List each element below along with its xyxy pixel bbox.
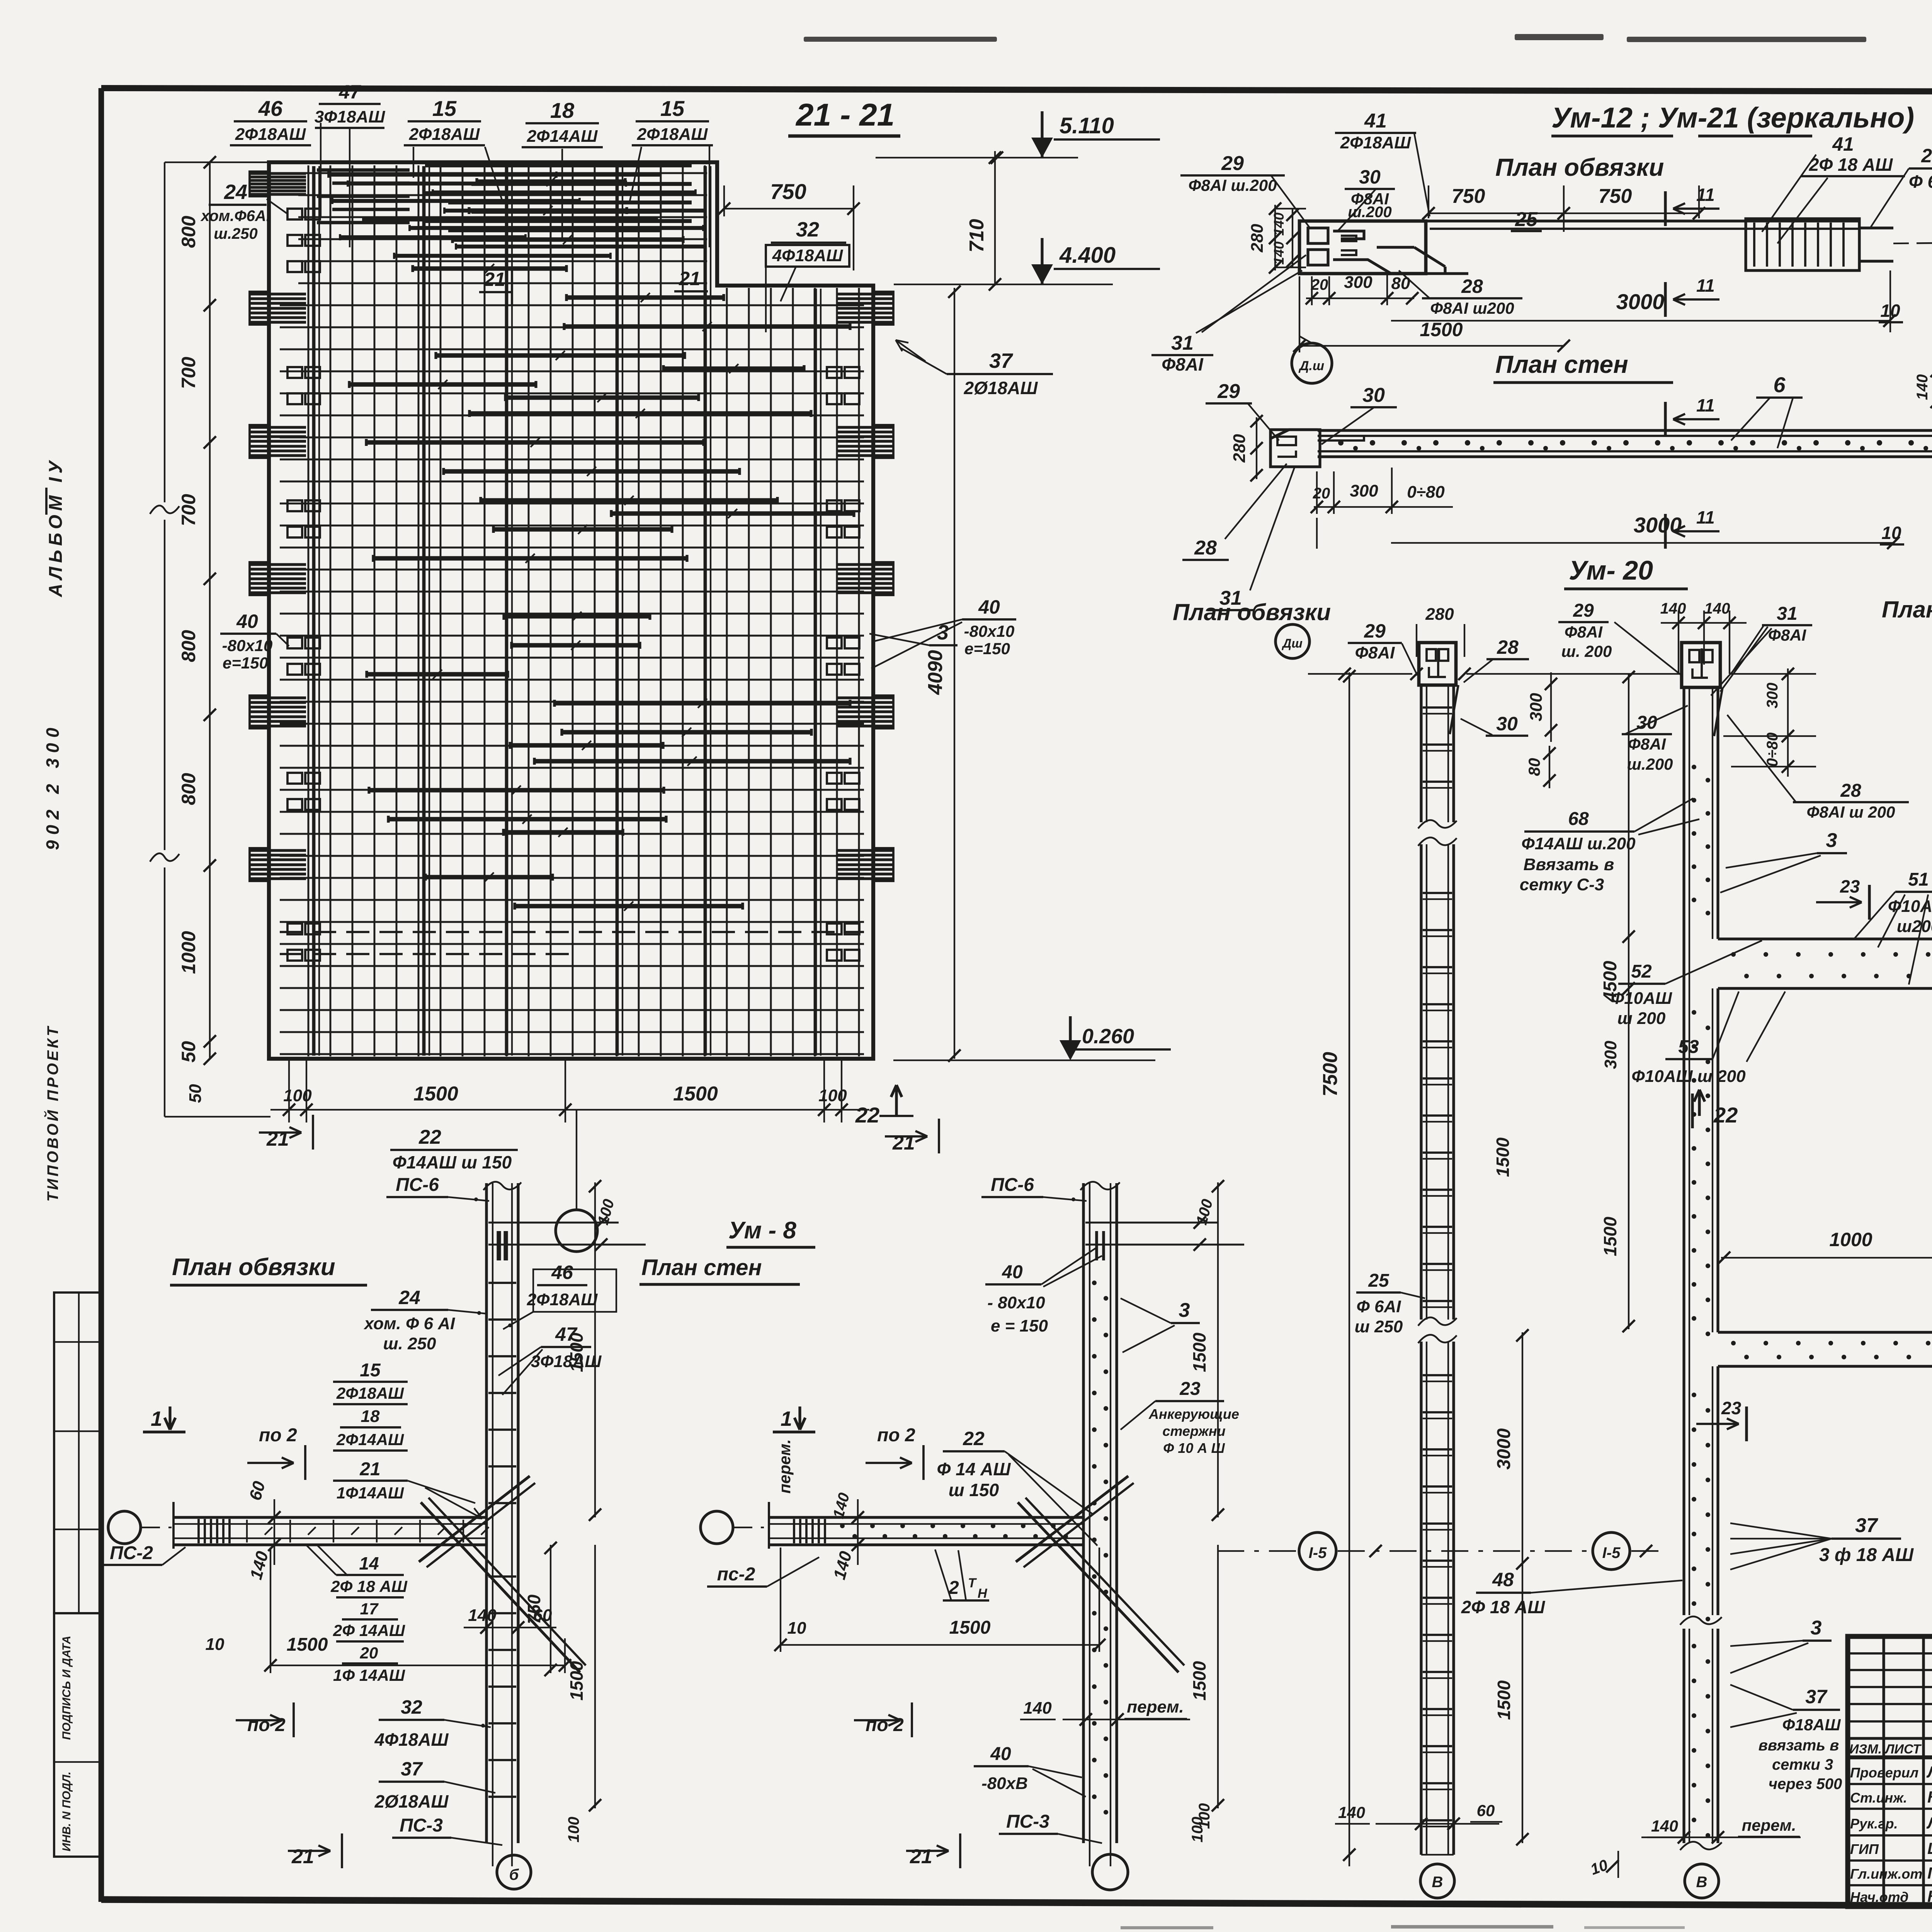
circle b bottom T1 xyxy=(497,1855,531,1889)
svg-text:700: 700 xyxy=(178,357,199,389)
level 4.400 xyxy=(894,284,1113,285)
svg-text:29: 29 xyxy=(1217,380,1240,403)
dashed construction line lower mesh xyxy=(280,931,864,933)
svg-text:25: 25 xyxy=(1921,145,1932,167)
svg-text:2Ф18АШ: 2Ф18АШ xyxy=(336,1384,404,1402)
svg-text:140: 140 xyxy=(1271,241,1287,265)
svg-text:Т: Т xyxy=(968,1576,977,1590)
heavy rebar segments with hooks xyxy=(477,179,625,184)
svg-text:Красавин: Красавин xyxy=(1927,1887,1932,1905)
svg-text:Ст.инж.: Ст.инж. xyxy=(1850,1790,1907,1806)
svg-text:18: 18 xyxy=(361,1407,380,1426)
svg-text:План стен: План стен xyxy=(1495,350,1628,378)
circle bottom T2 xyxy=(1092,1854,1128,1890)
rebar mesh horizontal bars xyxy=(280,173,864,1054)
T-section 1 (plan obvyazki) PS-6/PS-2/PS-3 xyxy=(485,1183,488,1843)
vertical dims T2 right xyxy=(1217,1182,1219,1517)
svg-text:14: 14 xyxy=(359,1553,379,1573)
left margin table lower xyxy=(54,1613,102,1857)
svg-text:ПС-6: ПС-6 xyxy=(991,1175,1034,1195)
svg-text:11: 11 xyxy=(1696,276,1715,296)
svg-text:2Ф18АШ: 2Ф18АШ xyxy=(637,125,708,144)
svg-text:50: 50 xyxy=(178,1041,199,1063)
svg-text:3000: 3000 xyxy=(1494,1428,1514,1469)
svg-text:2Ф14АШ: 2Ф14АШ xyxy=(336,1430,404,1449)
svg-text:Ф 14 АШ: Ф 14 АШ xyxy=(937,1459,1011,1479)
node circle Dsh sten xyxy=(1276,624,1310,658)
svg-text:ТИПОВОЙ ПРОЕКТ: ТИПОВОЙ ПРОЕКТ xyxy=(43,1024,61,1202)
svg-text:23: 23 xyxy=(1179,1379,1201,1399)
section mark 11 sten bottom xyxy=(1664,514,1667,549)
svg-text:300: 300 xyxy=(1527,693,1546,721)
svg-text:28: 28 xyxy=(1194,537,1217,559)
svg-text:Ф8АI: Ф8АI xyxy=(1565,623,1603,641)
svg-text:28: 28 xyxy=(1461,276,1483,297)
dense top bars cluster extra xyxy=(328,173,556,177)
svg-text:6: 6 xyxy=(1773,372,1786,397)
svg-text:е=150: е=150 xyxy=(223,654,268,672)
svg-text:32: 32 xyxy=(401,1696,422,1718)
section mark 23 upper xyxy=(1868,885,1871,920)
svg-text:2Ф 14АШ: 2Ф 14АШ xyxy=(333,1621,405,1639)
svg-text:План обвязки: План обвязки xyxy=(172,1254,335,1281)
svg-text:21: 21 xyxy=(483,269,505,290)
svg-text:Ум - 8: Ум - 8 xyxy=(728,1217,796,1244)
svg-text:ш 150: ш 150 xyxy=(949,1480,999,1500)
svg-text:1000: 1000 xyxy=(1829,1229,1872,1250)
svg-text:280: 280 xyxy=(1425,605,1454,624)
svg-text:Пронин: Пронин xyxy=(1927,1864,1932,1882)
svg-text:ш 250: ш 250 xyxy=(1355,1317,1403,1336)
svg-text:ИНВ. N ПОДЛ.: ИНВ. N ПОДЛ. xyxy=(60,1772,73,1852)
section mark 11 top xyxy=(1664,191,1667,226)
svg-text:18: 18 xyxy=(550,98,575,122)
grid plan outline xyxy=(269,162,873,1059)
node circle Dsh xyxy=(1292,343,1332,383)
svg-text:28: 28 xyxy=(1497,636,1519,658)
svg-text:100: 100 xyxy=(565,1817,582,1843)
svg-text:2Ф18АШ: 2Ф18АШ xyxy=(527,1290,598,1309)
svg-text:План стен: План стен xyxy=(1882,597,1932,622)
svg-text:1500: 1500 xyxy=(1189,1332,1209,1372)
svg-text:22: 22 xyxy=(418,1126,441,1148)
svg-text:Нач.отд: Нач.отд xyxy=(1850,1889,1908,1905)
svg-text:28: 28 xyxy=(1840,781,1861,801)
svg-text:20: 20 xyxy=(1311,276,1328,293)
svg-text:11: 11 xyxy=(1696,185,1715,205)
svg-text:Проверил: Проверил xyxy=(1850,1765,1918,1781)
svg-text:3: 3 xyxy=(1811,1617,1822,1639)
svg-text:40: 40 xyxy=(236,611,258,632)
svg-text:Рук.гр.: Рук.гр. xyxy=(1850,1816,1898,1832)
svg-text:I-5: I-5 xyxy=(1309,1544,1327,1561)
svg-text:План стен: План стен xyxy=(641,1255,762,1280)
svg-text:68: 68 xyxy=(1568,809,1589,829)
svg-text:25: 25 xyxy=(1368,1270,1389,1291)
dense top bars cluster xyxy=(425,163,692,167)
svg-text:2Ф18АШ: 2Ф18АШ xyxy=(409,125,480,144)
svg-text:800: 800 xyxy=(178,630,199,662)
svg-text:Ф8АI ш 200: Ф8АI ш 200 xyxy=(1807,803,1895,821)
svg-text:29: 29 xyxy=(1364,620,1386,642)
svg-text:Ф14АШ ш 150: Ф14АШ ш 150 xyxy=(393,1152,512,1172)
svg-text:План обвязки: План обвязки xyxy=(1495,153,1664,181)
svg-text:750: 750 xyxy=(1452,185,1485,207)
svg-text:В: В xyxy=(1696,1874,1708,1891)
svg-text:Ф8АI: Ф8АI xyxy=(1768,626,1806,644)
svg-text:е=150: е=150 xyxy=(964,639,1010,658)
svg-text:750: 750 xyxy=(770,179,806,204)
vertical dim 710 xyxy=(994,151,996,286)
svg-text:51: 51 xyxy=(1908,869,1929,890)
svg-text:10: 10 xyxy=(206,1635,224,1654)
svg-text:40: 40 xyxy=(978,596,1000,618)
svg-text:41: 41 xyxy=(1364,110,1387,132)
dim 750 top right xyxy=(724,208,854,209)
left vertical dimension chains xyxy=(209,162,211,1059)
svg-text:4500: 4500 xyxy=(1600,961,1621,1002)
svg-text:21 - 21: 21 - 21 xyxy=(795,97,895,133)
svg-text:800: 800 xyxy=(178,773,199,805)
slab 2 of right strip xyxy=(1718,1331,1932,1333)
svg-text:280: 280 xyxy=(1230,434,1249,463)
svg-text:80: 80 xyxy=(1525,758,1543,776)
svg-text:ш. 200: ш. 200 xyxy=(1561,642,1612,660)
svg-text:перем.: перем. xyxy=(1127,1697,1184,1716)
svg-text:300: 300 xyxy=(1344,273,1372,292)
svg-text:перем.: перем. xyxy=(776,1439,794,1494)
svg-text:1500: 1500 xyxy=(949,1617,991,1638)
svg-text:10: 10 xyxy=(1881,523,1901,543)
level 5.110 xyxy=(876,157,1078,158)
vertical dim 4090 right of plan xyxy=(954,288,955,1059)
svg-text:Ф8АI ш200: Ф8АI ш200 xyxy=(1430,299,1514,317)
svg-text:710: 710 xyxy=(966,219,988,253)
bottom dimension chain xyxy=(288,1061,290,1122)
svg-text:Ф8АI ш.200: Ф8АI ш.200 xyxy=(1189,176,1277,194)
svg-text:ЛИСТ: ЛИСТ xyxy=(1884,1742,1922,1757)
svg-text:10: 10 xyxy=(787,1619,806,1638)
svg-text:Курганова: Курганова xyxy=(1927,1788,1932,1806)
svg-text:21: 21 xyxy=(291,1845,314,1868)
svg-text:1500: 1500 xyxy=(1189,1661,1209,1701)
svg-text:по 2: по 2 xyxy=(877,1425,915,1446)
svg-text:3: 3 xyxy=(1179,1299,1190,1321)
svg-text:22: 22 xyxy=(1713,1103,1738,1127)
circle node bottom of plan xyxy=(556,1210,597,1252)
svg-text:по 2: по 2 xyxy=(247,1715,286,1735)
svg-text:ш. 250: ш. 250 xyxy=(383,1334,437,1353)
svg-text:пс-2: пс-2 xyxy=(717,1564,755,1585)
svg-text:-80хВ: -80хВ xyxy=(981,1774,1028,1793)
svg-text:Дш: Дш xyxy=(1281,636,1303,650)
svg-text:Лоуцкер: Лоуцкер xyxy=(1926,1763,1932,1781)
svg-text:е = 150: е = 150 xyxy=(991,1316,1048,1335)
svg-text:46: 46 xyxy=(258,96,283,121)
svg-text:АЛЬБОМ IУ: АЛЬБОМ IУ xyxy=(46,457,66,597)
svg-text:хом.Ф6АI: хом.Ф6АI xyxy=(200,207,271,224)
svg-text:2Ф 18 АШ: 2Ф 18 АШ xyxy=(1809,155,1893,175)
svg-text:1500: 1500 xyxy=(1600,1216,1620,1256)
svg-text:300: 300 xyxy=(1601,1041,1620,1069)
svg-text:1: 1 xyxy=(151,1407,162,1430)
svg-text:280: 280 xyxy=(1248,224,1267,253)
svg-text:4Ф18АШ: 4Ф18АШ xyxy=(772,246,844,265)
svg-text:140: 140 xyxy=(1023,1699,1052,1718)
svg-text:1500: 1500 xyxy=(287,1634,328,1655)
svg-text:ПОДПИСЬ И ДАТА: ПОДПИСЬ И ДАТА xyxy=(60,1636,73,1740)
svg-text:стержни: стержни xyxy=(1162,1423,1225,1439)
svg-text:5.110: 5.110 xyxy=(1060,113,1114,138)
svg-text:30: 30 xyxy=(1362,384,1385,406)
svg-text:46: 46 xyxy=(551,1262,573,1283)
svg-text:перем.: перем. xyxy=(1742,1816,1796,1834)
svg-text:47: 47 xyxy=(338,81,361,103)
svg-text:3000: 3000 xyxy=(1616,289,1665,314)
svg-text:4.400: 4.400 xyxy=(1059,243,1116,268)
svg-text:Ум- 20: Ум- 20 xyxy=(1569,555,1653,585)
svg-text:37: 37 xyxy=(401,1758,423,1780)
svg-text:ПС-3: ПС-3 xyxy=(400,1815,443,1836)
svg-text:100: 100 xyxy=(1189,1817,1206,1843)
svg-text:11: 11 xyxy=(1696,395,1715,415)
svg-text:Ф18АШ: Ф18АШ xyxy=(1782,1716,1841,1734)
svg-text:ш.250: ш.250 xyxy=(214,225,257,242)
svg-text:через 500: через 500 xyxy=(1769,1776,1842,1793)
svg-text:ИЗМ.: ИЗМ. xyxy=(1849,1742,1882,1757)
svg-text:21: 21 xyxy=(679,268,701,289)
svg-text:Ф8АI: Ф8АI xyxy=(1628,735,1666,753)
svg-text:Ф8АI: Ф8АI xyxy=(1162,354,1204,374)
svg-text:31: 31 xyxy=(1777,604,1797,624)
svg-text:750: 750 xyxy=(524,1594,544,1624)
svg-text:I-5: I-5 xyxy=(1602,1544,1621,1561)
svg-text:ГИП: ГИП xyxy=(1850,1841,1879,1857)
svg-text:1500: 1500 xyxy=(566,1661,587,1701)
level 0.260 right of plan xyxy=(893,1060,1155,1061)
dim 1500 under detail xyxy=(1299,345,1564,347)
svg-text:37: 37 xyxy=(1855,1514,1878,1537)
bar detail plan sten Um-12 xyxy=(1271,430,1318,438)
svg-text:50: 50 xyxy=(186,1084,205,1103)
svg-text:1Ф 14АШ: 1Ф 14АШ xyxy=(333,1666,405,1684)
svg-text:Ф10АШ ш 200: Ф10АШ ш 200 xyxy=(1631,1067,1746,1086)
svg-text:140: 140 xyxy=(1651,1817,1678,1835)
svg-text:21: 21 xyxy=(910,1845,932,1868)
svg-text:2Ф14АШ: 2Ф14АШ xyxy=(527,127,598,146)
svg-text:21: 21 xyxy=(359,1459,380,1480)
section mark 11 bottom xyxy=(1664,282,1667,317)
svg-text:- 80х10: - 80х10 xyxy=(987,1293,1045,1312)
dim 3000 xyxy=(1391,320,1889,321)
svg-text:29: 29 xyxy=(1573,600,1594,621)
clip symbols left column xyxy=(287,209,302,219)
rebar mesh vertical bars xyxy=(308,165,859,1056)
svg-text:0÷80: 0÷80 xyxy=(1764,733,1781,767)
svg-text:План обвязки: План обвязки xyxy=(1173,599,1331,625)
svg-text:32: 32 xyxy=(796,218,819,241)
svg-text:-80х10: -80х10 xyxy=(964,622,1015,640)
svg-text:1500: 1500 xyxy=(673,1083,718,1105)
svg-text:24: 24 xyxy=(224,180,247,204)
svg-text:29: 29 xyxy=(1221,152,1244,175)
svg-text:2Ø18АШ: 2Ø18АШ xyxy=(964,378,1038,398)
section mark 11 sten top xyxy=(1664,402,1667,437)
title block stamp xyxy=(1848,1636,1932,1906)
svg-text:ш.200: ш.200 xyxy=(1627,755,1673,773)
svg-text:100: 100 xyxy=(283,1086,312,1105)
svg-text:41: 41 xyxy=(1832,133,1854,155)
svg-text:140: 140 xyxy=(1338,1803,1365,1821)
T-section 2 (Um-8 plan sten) xyxy=(1082,1183,1085,1843)
svg-text:ПС-3: ПС-3 xyxy=(1006,1811,1049,1832)
dim 1000 right strip xyxy=(1721,1257,1932,1259)
Um-20 left strip (plan obvyazki) xyxy=(1419,643,1456,685)
svg-text:Ф8АI: Ф8АI xyxy=(1355,643,1395,662)
svg-text:ПС-2: ПС-2 xyxy=(110,1543,153,1563)
rebar dots plan sten xyxy=(1338,440,1344,446)
circle V left strip xyxy=(1420,1864,1454,1898)
svg-text:Ф 6АI: Ф 6АI xyxy=(1356,1297,1401,1316)
svg-text:3Ф18АШ: 3Ф18АШ xyxy=(315,107,386,126)
svg-text:30: 30 xyxy=(1636,713,1657,733)
svg-text:2Ф18АШ: 2Ф18АШ xyxy=(235,125,306,144)
svg-text:40: 40 xyxy=(1002,1262,1023,1282)
svg-text:11: 11 xyxy=(1696,507,1715,527)
svg-text:0÷80: 0÷80 xyxy=(1407,483,1445,502)
svg-text:52: 52 xyxy=(1631,961,1652,982)
svg-text:23: 23 xyxy=(1840,876,1860,896)
svg-text:100: 100 xyxy=(818,1086,847,1105)
svg-text:4Ф18АШ: 4Ф18АШ xyxy=(374,1730,449,1750)
sheet frame xyxy=(101,88,1932,93)
svg-text:Ввязать в: Ввязать в xyxy=(1524,855,1614,874)
right edge hatch tabs xyxy=(873,292,893,325)
svg-text:700: 700 xyxy=(178,494,199,526)
svg-text:0.260: 0.260 xyxy=(1082,1025,1134,1048)
slab 1 of right strip xyxy=(1718,937,1932,940)
svg-text:ПС-6: ПС-6 xyxy=(396,1175,439,1195)
vertical dims 1500/1500 T1 xyxy=(594,1182,596,1517)
svg-text:1500: 1500 xyxy=(1494,1680,1514,1720)
svg-text:800: 800 xyxy=(178,216,199,248)
svg-text:300: 300 xyxy=(1764,683,1781,709)
svg-text:20: 20 xyxy=(1313,485,1330,502)
dim 280 sten left xyxy=(1256,417,1257,479)
svg-text:40: 40 xyxy=(990,1744,1011,1764)
section mark 23 lower xyxy=(1745,1406,1748,1441)
svg-text:Н: Н xyxy=(978,1586,988,1601)
svg-text:Ф14АШ ш.200: Ф14АШ ш.200 xyxy=(1521,834,1636,853)
svg-text:по 2: по 2 xyxy=(866,1715,904,1735)
svg-text:3 ф 18 АШ: 3 ф 18 АШ xyxy=(1819,1545,1914,1565)
scan smudge marks top edge xyxy=(804,37,997,42)
svg-text:30: 30 xyxy=(1359,166,1381,188)
svg-text:30: 30 xyxy=(1496,713,1518,735)
svg-text:3: 3 xyxy=(1826,829,1837,852)
dim 3000 sten xyxy=(1391,542,1893,544)
svg-text:21: 21 xyxy=(266,1128,289,1150)
Um-20 right strip (plan sten) xyxy=(1682,643,1720,687)
svg-text:300: 300 xyxy=(1350,481,1378,500)
svg-text:140: 140 xyxy=(1271,213,1287,236)
svg-text:37: 37 xyxy=(989,349,1014,372)
svg-text:15: 15 xyxy=(432,96,457,121)
svg-text:21: 21 xyxy=(892,1132,915,1154)
svg-text:23: 23 xyxy=(1721,1398,1742,1418)
svg-text:сетку С-3: сетку С-3 xyxy=(1520,875,1604,894)
axis line I-5 xyxy=(1217,1550,1297,1552)
svg-text:48: 48 xyxy=(1492,1569,1514,1590)
svg-text:140: 140 xyxy=(1660,600,1686,617)
svg-text:2Ø18АШ: 2Ø18АШ xyxy=(374,1791,449,1811)
svg-text:80: 80 xyxy=(1391,274,1410,293)
left margin table upper xyxy=(54,1293,102,1613)
svg-text:3000: 3000 xyxy=(1634,513,1682,537)
svg-text:140: 140 xyxy=(1704,600,1730,617)
svg-text:60: 60 xyxy=(1477,1801,1495,1820)
svg-text:4090: 4090 xyxy=(924,650,947,695)
svg-text:20: 20 xyxy=(360,1644,378,1662)
svg-text:б: б xyxy=(509,1866,519,1883)
svg-text:140: 140 xyxy=(1914,374,1931,400)
svg-text:2Ф 18 АШ: 2Ф 18 АШ xyxy=(330,1577,408,1595)
svg-text:ш200: ш200 xyxy=(1897,917,1932,936)
svg-text:Анкерующие: Анкерующие xyxy=(1148,1406,1239,1422)
left edge hatch tabs xyxy=(250,172,269,196)
heavy vertical bars xyxy=(312,166,316,1056)
dims 20 300 80 under anchor xyxy=(1306,298,1414,299)
svg-text:Д.ш: Д.ш xyxy=(1298,359,1324,373)
svg-text:Шапиро: Шапиро xyxy=(1927,1839,1932,1857)
svg-text:-80х10: -80х10 xyxy=(222,636,273,655)
svg-text:17: 17 xyxy=(360,1600,379,1618)
svg-text:22: 22 xyxy=(963,1428,985,1449)
svg-text:ввязать в: ввязать в xyxy=(1759,1737,1839,1754)
svg-text:902 2 300: 902 2 300 xyxy=(43,722,63,850)
svg-text:7500: 7500 xyxy=(1319,1052,1342,1097)
svg-text:1500: 1500 xyxy=(1420,319,1463,340)
svg-text:Ф 10 А Ш: Ф 10 А Ш xyxy=(1163,1440,1225,1456)
clip symbols right column xyxy=(827,367,842,378)
bar detail plan obvyazki Um-12 xyxy=(1299,221,1426,274)
svg-text:1500: 1500 xyxy=(413,1083,458,1105)
svg-text:53: 53 xyxy=(1678,1037,1699,1057)
svg-text:1Ф14АШ: 1Ф14АШ xyxy=(337,1484,404,1502)
circle V right strip xyxy=(1685,1864,1719,1898)
dims 280 140 140 left of anchor xyxy=(1274,205,1276,270)
svg-text:24: 24 xyxy=(398,1287,420,1308)
svg-text:15: 15 xyxy=(360,1360,381,1381)
labels top of right strip xyxy=(1661,622,1747,624)
svg-text:Лоуцкер: Лоуцкер xyxy=(1926,1814,1932,1832)
svg-text:31: 31 xyxy=(1171,332,1194,354)
svg-text:1: 1 xyxy=(781,1407,792,1430)
svg-text:750: 750 xyxy=(1599,185,1632,207)
svg-text:37: 37 xyxy=(1805,1686,1828,1708)
svg-text:2Ф18АШ: 2Ф18АШ xyxy=(1340,133,1412,152)
svg-text:по 2: по 2 xyxy=(259,1425,297,1446)
svg-text:2Ф 18 АШ: 2Ф 18 АШ xyxy=(1461,1597,1545,1617)
svg-text:Гл.инж.от: Гл.инж.от xyxy=(1850,1866,1922,1882)
svg-text:25: 25 xyxy=(1515,208,1538,231)
svg-text:Ум-12 ; Ум-21 (зеркально): Ум-12 ; Ум-21 (зеркально) xyxy=(1551,102,1914,134)
dim chain right strip xyxy=(1628,674,1629,1329)
dim 7500 left strip xyxy=(1349,672,1350,1866)
svg-text:1500: 1500 xyxy=(566,1332,587,1372)
svg-text:1500: 1500 xyxy=(1493,1137,1513,1177)
svg-text:22: 22 xyxy=(855,1103,879,1127)
